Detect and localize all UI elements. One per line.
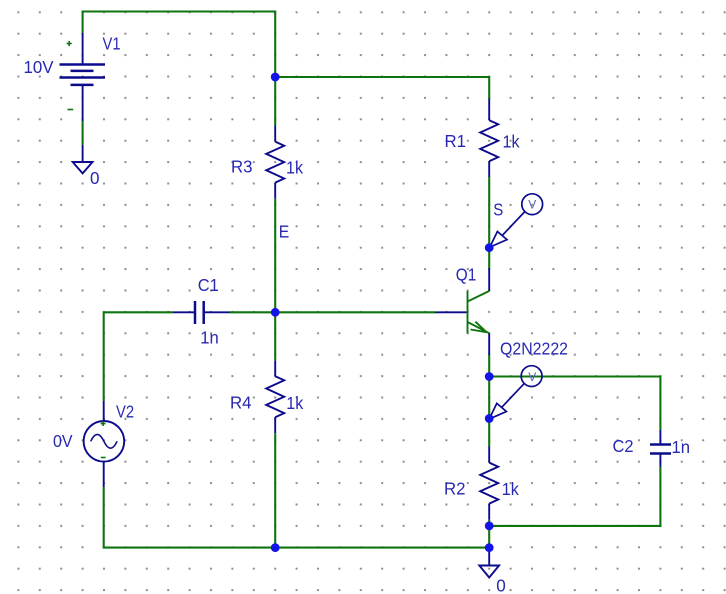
svg-text:1k: 1k [286, 393, 303, 413]
svg-text:0: 0 [90, 168, 100, 188]
svg-text:R3: R3 [231, 157, 253, 177]
svg-text:1n: 1n [200, 328, 219, 348]
svg-text:0V: 0V [53, 431, 73, 451]
svg-text:R2: R2 [444, 479, 466, 499]
svg-text:V2: V2 [116, 402, 134, 422]
svg-text:C2: C2 [613, 436, 634, 456]
svg-text:V: V [528, 370, 536, 384]
svg-text:V: V [528, 198, 536, 212]
svg-text:Q2N2222: Q2N2222 [500, 338, 568, 358]
svg-text:1k: 1k [286, 157, 303, 177]
svg-text:1k: 1k [503, 131, 520, 151]
svg-text:R1: R1 [445, 131, 467, 151]
svg-text:1n: 1n [672, 437, 691, 457]
svg-text:Q1: Q1 [456, 265, 477, 285]
svg-text:10V: 10V [24, 57, 54, 77]
svg-text:0: 0 [496, 576, 506, 594]
svg-text:1k: 1k [502, 479, 519, 499]
svg-text:R4: R4 [230, 393, 252, 413]
svg-text:S: S [493, 200, 503, 220]
svg-text:V1: V1 [103, 34, 121, 54]
svg-text:C1: C1 [198, 275, 219, 295]
svg-text:E: E [279, 222, 290, 242]
